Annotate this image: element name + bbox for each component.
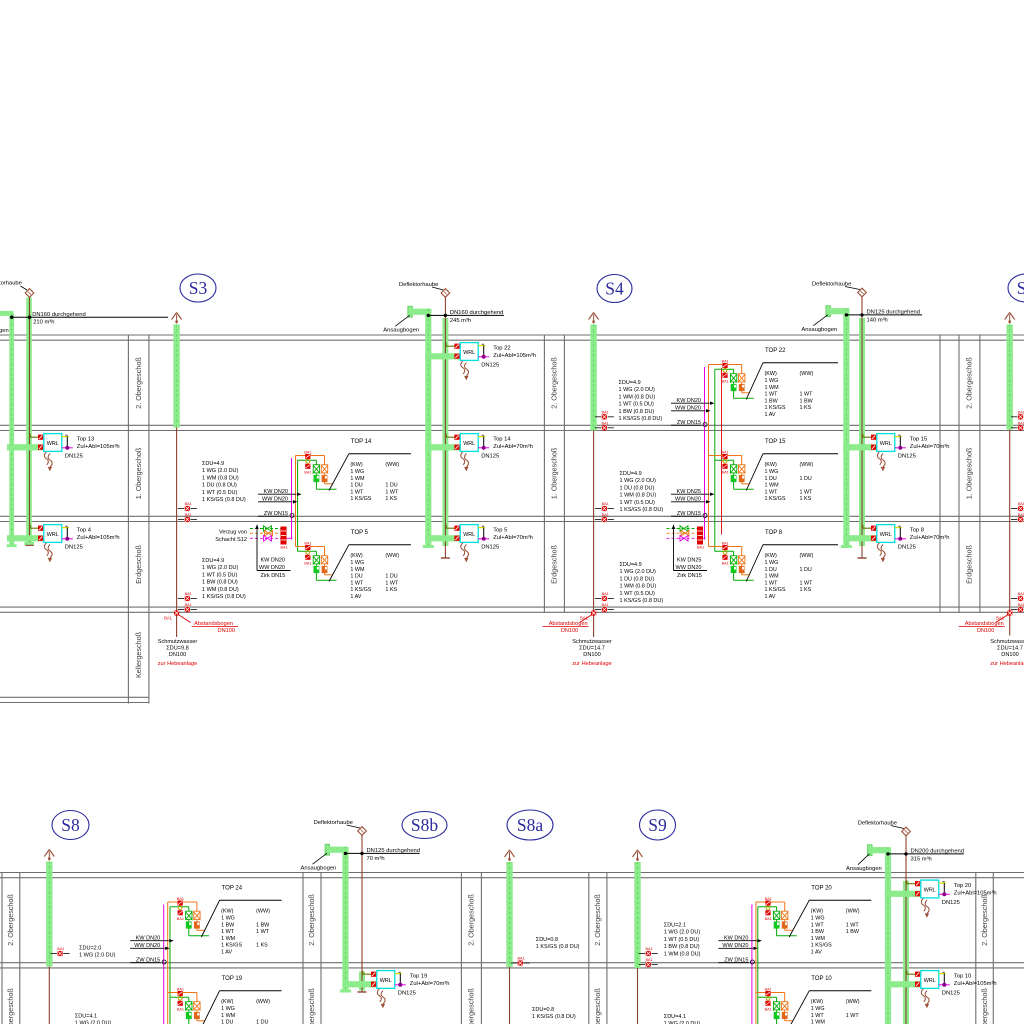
- pipe to valves TOP 5: [296, 546, 325, 548]
- pipe under valves TOP 19: [196, 1019, 198, 1021]
- svg-text:BA1: BA1: [765, 988, 772, 992]
- svg-text:Zul+Abl=70m³h: Zul+Abl=70m³h: [910, 444, 950, 450]
- svg-text:1 WT (0.5 DU): 1 WT (0.5 DU): [619, 402, 655, 408]
- transfer pipes from shaft: [667, 528, 698, 530]
- svg-text:DN100: DN100: [561, 628, 578, 634]
- svg-text:1. Obergeschoß: 1. Obergeschoß: [980, 988, 989, 1024]
- valve orange TOP 24: [194, 910, 201, 912]
- cleanout BA1: [178, 508, 184, 510]
- node S8a: [507, 810, 553, 840]
- damper Top 5 exhaust: [454, 526, 459, 531]
- WRL unit Top 5: [460, 525, 478, 543]
- svg-text:BA1: BA1: [722, 542, 729, 546]
- shaft wall lines: [588, 873, 590, 1024]
- svg-text:WRL: WRL: [880, 532, 892, 538]
- svg-text:Schmutzwasser: Schmutzwasser: [572, 639, 612, 645]
- svg-text:Zul+Abl=70m³h: Zul+Abl=70m³h: [493, 444, 533, 450]
- svg-text:ΣDU=4.9: ΣDU=4.9: [202, 461, 224, 467]
- svg-text:1 AV: 1 AV: [350, 594, 361, 600]
- svg-text:1. Obergeschoß: 1. Obergeschoß: [965, 447, 974, 499]
- svg-text:1 WT: 1 WT: [385, 580, 399, 586]
- svg-text:1. Obergeschoß: 1. Obergeschoß: [467, 988, 476, 1024]
- svg-text:2. Obergeschoß: 2. Obergeschoß: [6, 894, 15, 946]
- WRL unit Top 13: [44, 434, 62, 452]
- svg-text:DN125: DN125: [942, 900, 960, 906]
- svg-text:1 KS/GS (0.8 DU): 1 KS/GS (0.8 DU): [202, 594, 246, 600]
- svg-text:1 WG: 1 WG: [350, 469, 364, 475]
- svg-text:1 WT (0.5 DU): 1 WT (0.5 DU): [664, 937, 700, 943]
- svg-text:WW DN20: WW DN20: [676, 565, 702, 571]
- svg-text:1. Obergeschoß: 1. Obergeschoß: [134, 447, 143, 499]
- svg-text:1 KS/GS: 1 KS/GS: [765, 496, 786, 502]
- WRL unit Top 20: [921, 880, 939, 898]
- svg-text:DN125: DN125: [898, 453, 916, 459]
- svg-text:BA1: BA1: [281, 546, 288, 550]
- svg-text:1 KS/GS: 1 KS/GS: [221, 943, 242, 949]
- Ansaugbogen intake elbow: [408, 306, 413, 317]
- drain arrow Top 15: [877, 452, 881, 465]
- svg-text:1 WT: 1 WT: [800, 489, 814, 495]
- svg-text:Top 8: Top 8: [910, 527, 924, 533]
- svg-text:ΣDU=9.8: ΣDU=9.8: [166, 646, 189, 652]
- svg-text:1 BW: 1 BW: [800, 398, 814, 404]
- pipe under valves TOP 20: [784, 928, 786, 930]
- svg-text:1 WM: 1 WM: [221, 1013, 236, 1019]
- svg-text:BA1: BA1: [304, 451, 311, 455]
- exhaust riser duct: [359, 972, 365, 991]
- damper Top 19 exhaust: [371, 972, 376, 977]
- damper Top 19 supply: [371, 982, 376, 987]
- svg-text:TOP 5: TOP 5: [351, 530, 369, 536]
- pipe to valves TOP 14: [296, 455, 325, 457]
- svg-text:1 WG (2.0 DU): 1 WG (2.0 DU): [202, 468, 239, 474]
- svg-text:TOP 15: TOP 15: [765, 439, 786, 445]
- WRL unit Top 15: [877, 434, 895, 452]
- svg-text:2. Obergeschoß: 2. Obergeschoß: [134, 357, 143, 409]
- node S8b: [402, 812, 447, 839]
- svg-text:(KW): (KW): [765, 553, 777, 559]
- node S8: [52, 811, 89, 840]
- svg-text:ΣDU=4.1: ΣDU=4.1: [75, 1014, 97, 1020]
- floor line 2: [0, 515, 1024, 517]
- svg-text:Ansaugbogen: Ansaugbogen: [846, 866, 882, 872]
- svg-text:1 WG: 1 WG: [811, 1006, 825, 1012]
- leader TOP 19: [201, 991, 219, 1024]
- valve green TOP 20: [773, 910, 780, 912]
- svg-text:BA1: BA1: [177, 988, 184, 992]
- svg-text:(KW): (KW): [811, 999, 823, 1005]
- cleanout BA1: [639, 953, 645, 955]
- leader TOP 8: [746, 545, 763, 582]
- pipe to valves TOP 15: [709, 455, 742, 457]
- svg-text:1 KS/GS (0.8 DU): 1 KS/GS (0.8 DU): [536, 944, 580, 950]
- riser pipes KW WW ZW: [704, 367, 706, 540]
- connection stub Top 19: [395, 973, 402, 975]
- leader TOP 22: [746, 363, 763, 400]
- wire supply duct to Top 15: [843, 444, 877, 450]
- svg-text:1 WT: 1 WT: [846, 922, 860, 928]
- svg-text:BA1: BA1: [722, 380, 729, 384]
- svg-text:1 KS/GS (0.8 DU): 1 KS/GS (0.8 DU): [620, 507, 664, 513]
- riser vent duct: [634, 862, 640, 968]
- svg-text:1 BW: 1 BW: [811, 929, 825, 935]
- svg-text:torhaube: torhaube: [0, 281, 22, 287]
- svg-text:1 WM (0.8 DU): 1 WM (0.8 DU): [619, 394, 656, 400]
- svg-text:(KW): (KW): [350, 462, 362, 468]
- svg-text:1 DU (0.8 DU): 1 DU (0.8 DU): [620, 485, 655, 491]
- wire supply duct to Top 5: [425, 535, 460, 541]
- svg-text:1 WT: 1 WT: [811, 1013, 825, 1019]
- riser pipes KW WW ZW: [291, 458, 293, 540]
- svg-text:BA1: BA1: [185, 502, 192, 506]
- cleanout BA1: [595, 508, 601, 510]
- connection stub Top 15: [895, 436, 902, 438]
- svg-text:S8b: S8b: [411, 815, 438, 835]
- connection stub Top 4: [62, 527, 69, 529]
- wire supply duct to Top 19: [342, 981, 376, 987]
- svg-text:1 WM: 1 WM: [221, 936, 236, 942]
- svg-text:1. Obergeschoß: 1. Obergeschoß: [6, 988, 15, 1024]
- svg-text:1 DU (0.8 DU): 1 DU (0.8 DU): [202, 483, 237, 489]
- riser arrow: [589, 313, 594, 320]
- svg-text:Zul+Abl=70m³h: Zul+Abl=70m³h: [410, 981, 450, 987]
- svg-text:Top 20: Top 20: [954, 883, 971, 889]
- svg-text:(KW): (KW): [765, 462, 777, 468]
- shaft wall lines: [958, 335, 960, 612]
- shaft wall lines: [127, 335, 129, 704]
- svg-text:Schmutzwasser: Schmutzwasser: [990, 639, 1024, 645]
- svg-text:(WW): (WW): [846, 999, 860, 1005]
- svg-text:1 DU: 1 DU: [350, 483, 362, 489]
- floor line bottom 2: [0, 962, 1024, 964]
- svg-text:1 KS: 1 KS: [800, 405, 812, 411]
- drain arrow Top 10: [921, 989, 925, 1002]
- pipe under valves TOP 15: [741, 482, 743, 484]
- damper Top 10 exhaust: [915, 972, 920, 977]
- damper Top 20 exhaust: [915, 881, 920, 886]
- svg-text:1 BW: 1 BW: [221, 922, 235, 928]
- svg-text:ΣDU=4.1: ΣDU=4.1: [664, 1014, 686, 1020]
- floor line basement: [0, 696, 149, 698]
- cleanout BA1: [595, 598, 601, 600]
- svg-text:BA1: BA1: [602, 513, 609, 517]
- leader TOP 20: [789, 900, 809, 937]
- riser waste pipe: [593, 431, 595, 638]
- svg-text:WRL: WRL: [47, 532, 59, 538]
- cleanout BA1: [1011, 598, 1017, 600]
- pipe to valves TOP 24: [168, 901, 197, 903]
- svg-text:1 KS: 1 KS: [385, 496, 397, 502]
- leader TOP 5: [329, 545, 349, 582]
- svg-text:Ansaugbogen: Ansaugbogen: [301, 866, 337, 872]
- svg-text:(KW): (KW): [765, 371, 777, 377]
- riser waste pipe: [176, 428, 178, 638]
- wire exhaust duct Top 5: [445, 525, 447, 528]
- svg-text:DN160 durchgehend: DN160 durchgehend: [32, 312, 85, 318]
- svg-text:DN160 durchgehend: DN160 durchgehend: [450, 310, 504, 316]
- svg-text:KW DN20: KW DN20: [261, 558, 285, 564]
- riser vent duct: [506, 862, 512, 967]
- svg-text:BA1: BA1: [602, 502, 609, 506]
- svg-text:zur Hebeanlage: zur Hebeanlage: [990, 661, 1024, 667]
- Ansaugbogen intake elbow: [325, 844, 330, 855]
- svg-text:BA1: BA1: [177, 897, 184, 901]
- pipe labels EG: [673, 527, 675, 571]
- connection stub Top 5: [478, 527, 485, 529]
- svg-text:Zul+Abl=70m³h: Zul+Abl=70m³h: [493, 535, 533, 541]
- drain arrow Top 5: [461, 543, 465, 556]
- svg-text:(KW): (KW): [350, 553, 362, 559]
- svg-text:1 WT: 1 WT: [765, 489, 779, 495]
- svg-text:Top 10: Top 10: [954, 973, 971, 979]
- svg-text:1 WM: 1 WM: [350, 567, 365, 573]
- svg-text:1 WT: 1 WT: [846, 1013, 860, 1019]
- svg-text:BA1: BA1: [1018, 603, 1024, 607]
- pipe under valves TOP 14: [324, 482, 326, 484]
- svg-text:2. Obergeschoß: 2. Obergeschoß: [307, 894, 316, 946]
- svg-text:WRL: WRL: [463, 532, 475, 538]
- svg-text:gen: gen: [0, 328, 9, 334]
- damper Top 4 exhaust: [38, 526, 43, 531]
- riser arrow: [1005, 313, 1010, 320]
- svg-text:1 WT: 1 WT: [811, 922, 825, 928]
- valve green TOP 22: [730, 373, 737, 375]
- cleanout BA1: [595, 609, 601, 611]
- shut-off block: [697, 527, 703, 545]
- svg-text:DN125: DN125: [398, 990, 416, 996]
- svg-text:DN125: DN125: [481, 362, 499, 368]
- svg-text:(WW): (WW): [800, 462, 814, 468]
- svg-text:1 WM: 1 WM: [765, 385, 780, 391]
- svg-text:1 BW: 1 BW: [846, 929, 860, 935]
- svg-text:1 WG (2.0 DU): 1 WG (2.0 DU): [79, 953, 116, 959]
- svg-text:1 KS/GS: 1 KS/GS: [765, 587, 786, 593]
- connection stub Top 22: [478, 345, 485, 347]
- svg-text:DN125 durchgehend: DN125 durchgehend: [367, 848, 421, 854]
- svg-text:BA1: BA1: [722, 360, 729, 364]
- wire supply duct to Top 20: [885, 891, 921, 897]
- wire supply duct to Top 14: [425, 444, 460, 450]
- drain arrow Top 4: [44, 543, 48, 556]
- pipe under valves TOP 8: [741, 573, 743, 575]
- pipe labels EG: [256, 527, 258, 571]
- svg-text:TOP 19: TOP 19: [222, 976, 243, 982]
- supply riser duct: [425, 309, 431, 546]
- riser waste pipe: [48, 967, 50, 1024]
- svg-text:1 AV: 1 AV: [221, 950, 232, 956]
- damper Top 4 supply: [38, 536, 43, 541]
- svg-text:S9: S9: [648, 815, 667, 835]
- svg-text:WRL: WRL: [924, 978, 936, 984]
- svg-text:Top 15: Top 15: [910, 436, 927, 442]
- pipe to valves TOP 8: [709, 546, 742, 548]
- svg-text:BA1: BA1: [185, 603, 192, 607]
- svg-text:ΣDU=2.1: ΣDU=2.1: [664, 923, 686, 929]
- duct header line: [428, 314, 504, 316]
- svg-text:1 BW: 1 BW: [256, 922, 270, 928]
- svg-text:ΣDU=14.7: ΣDU=14.7: [997, 646, 1023, 652]
- svg-text:BA1: BA1: [602, 421, 609, 425]
- svg-text:1 WM (0.8 DU): 1 WM (0.8 DU): [202, 475, 239, 481]
- svg-text:1 KS/GS: 1 KS/GS: [811, 943, 832, 949]
- svg-text:zur Hebeanlage: zur Hebeanlage: [158, 661, 198, 667]
- svg-text:1 KS: 1 KS: [800, 587, 812, 593]
- svg-text:TOP 10: TOP 10: [811, 976, 832, 982]
- svg-text:(WW): (WW): [800, 371, 814, 377]
- svg-text:1 BW (0.8 DU): 1 BW (0.8 DU): [619, 409, 655, 415]
- svg-text:BA1: BA1: [602, 592, 609, 596]
- wire exhaust duct Top 19: [362, 971, 364, 974]
- svg-text:Top 22: Top 22: [493, 345, 510, 351]
- exhaust riser duct: [903, 881, 909, 1024]
- wire exhaust duct Top 15: [862, 434, 864, 437]
- svg-text:BA1: BA1: [304, 562, 311, 566]
- supply riser duct: [843, 308, 849, 546]
- valve green TOP 10: [773, 1001, 780, 1003]
- leader TOP 15: [746, 454, 763, 491]
- svg-text:140 m³h: 140 m³h: [867, 318, 888, 324]
- svg-text:1 WM: 1 WM: [811, 1020, 826, 1024]
- svg-text:1 DU (0.8 DU): 1 DU (0.8 DU): [620, 576, 655, 582]
- pipe under valves TOP 24: [196, 928, 198, 930]
- svg-text:1 WM (0.8 DU): 1 WM (0.8 DU): [664, 951, 701, 957]
- svg-text:KW DN25: KW DN25: [677, 558, 701, 564]
- svg-text:2. Obergeschoß: 2. Obergeschoß: [550, 357, 559, 409]
- svg-text:WRL: WRL: [380, 978, 392, 984]
- svg-text:1 KS/GS (0.8 DU): 1 KS/GS (0.8 DU): [532, 1014, 576, 1020]
- wire exhaust duct Top 22: [445, 343, 447, 346]
- svg-text:1 WT: 1 WT: [765, 392, 779, 398]
- svg-text:BA1: BA1: [518, 957, 525, 961]
- valve orange TOP 20: [781, 910, 788, 912]
- svg-text:(KW): (KW): [221, 909, 233, 915]
- svg-text:Top 4: Top 4: [77, 527, 92, 533]
- svg-text:1 WT (0.5 DU): 1 WT (0.5 DU): [202, 490, 238, 496]
- svg-text:Zul+Abl=105m³h: Zul+Abl=105m³h: [77, 444, 120, 450]
- svg-text:1. Obergeschoß: 1. Obergeschoß: [307, 988, 316, 1024]
- riser pipes KW WW ZW: [751, 905, 753, 1024]
- svg-text:1. Obergeschoß: 1. Obergeschoß: [550, 447, 559, 499]
- svg-text:WRL: WRL: [924, 887, 936, 893]
- svg-text:1 DU: 1 DU: [221, 1020, 233, 1024]
- damper Top 10 supply: [915, 982, 920, 987]
- svg-text:BA1: BA1: [602, 603, 609, 607]
- node S3: [180, 274, 216, 302]
- svg-text:BA1: BA1: [304, 542, 311, 546]
- riser waste pipe: [509, 967, 511, 1024]
- cleanout BA1: [595, 416, 601, 418]
- svg-text:Top 5: Top 5: [493, 527, 507, 533]
- svg-text:1 WM: 1 WM: [765, 483, 780, 489]
- drain arrow Top 20: [921, 899, 925, 912]
- damper Top 13 supply: [38, 445, 43, 450]
- svg-text:WW DN20: WW DN20: [259, 565, 285, 571]
- svg-text:DN125: DN125: [898, 544, 916, 550]
- svg-text:TOP 20: TOP 20: [811, 885, 832, 891]
- svg-text:1 WT: 1 WT: [765, 580, 779, 586]
- svg-text:BA1: BA1: [646, 947, 653, 951]
- svg-text:Verzug von: Verzug von: [219, 530, 247, 536]
- Deflektorhaube hood: [358, 827, 367, 836]
- svg-text:1 AV: 1 AV: [811, 950, 822, 956]
- svg-text:1 DU: 1 DU: [385, 574, 397, 580]
- svg-text:DN125: DN125: [942, 990, 960, 996]
- WRL unit Top 22: [460, 343, 478, 361]
- svg-text:1 BW (0.8 DU): 1 BW (0.8 DU): [664, 944, 700, 950]
- svg-text:1 WG: 1 WG: [765, 560, 779, 566]
- svg-text:1 AV: 1 AV: [765, 594, 776, 600]
- cleanout BA1: [1011, 508, 1017, 510]
- riser waste pipe: [637, 968, 639, 1024]
- svg-text:1 WG: 1 WG: [765, 378, 779, 384]
- svg-text:1 WT (0.5 DU): 1 WT (0.5 DU): [620, 591, 656, 597]
- svg-text:(KW): (KW): [221, 999, 233, 1005]
- svg-text:WRL: WRL: [463, 441, 475, 447]
- connection stub Top 14: [478, 436, 485, 438]
- svg-text:1 WM: 1 WM: [765, 574, 780, 580]
- svg-text:1 DU: 1 DU: [256, 1020, 268, 1024]
- damper Top 22 supply: [454, 354, 459, 359]
- damper Top 20 supply: [915, 891, 920, 896]
- wire exhaust duct Top 13: [29, 434, 31, 437]
- riser vent duct: [173, 325, 179, 428]
- svg-text:TOP 8: TOP 8: [765, 530, 783, 536]
- svg-text:1 DU: 1 DU: [800, 476, 812, 482]
- valve orange TOP 8: [738, 555, 745, 557]
- svg-text:2. Obergeschoß: 2. Obergeschoß: [965, 357, 974, 409]
- svg-text:1 DU: 1 DU: [765, 567, 777, 573]
- cleanout BA1: [511, 962, 517, 964]
- svg-text:1 WT (0.5 DU): 1 WT (0.5 DU): [620, 500, 656, 506]
- svg-text:ΣDU=0.8: ΣDU=0.8: [532, 1007, 554, 1013]
- svg-text:1 WG: 1 WG: [350, 560, 364, 566]
- wire supply duct to Top 10: [885, 981, 921, 987]
- svg-text:70 m³h: 70 m³h: [367, 856, 385, 862]
- pipe under valves TOP 10: [784, 1019, 786, 1021]
- svg-text:ΣDU=4.9: ΣDU=4.9: [202, 558, 224, 564]
- svg-text:BA1: BA1: [722, 451, 729, 455]
- svg-text:1 WT: 1 WT: [385, 489, 399, 495]
- connection stub Top 20: [939, 882, 946, 884]
- svg-text:1 WG (2.0 DU): 1 WG (2.0 DU): [620, 569, 657, 575]
- duct header line: [846, 314, 922, 316]
- valve orange TOP 10: [781, 1001, 788, 1003]
- svg-text:zur Hebeanlage: zur Hebeanlage: [572, 661, 612, 667]
- svg-text:1 WM: 1 WM: [350, 476, 365, 482]
- svg-text:1 WM (0.8 DU): 1 WM (0.8 DU): [202, 587, 239, 593]
- svg-text:BA1: BA1: [765, 897, 772, 901]
- damper Top 13 exhaust: [38, 435, 43, 440]
- pipe to valves TOP 22: [709, 364, 742, 366]
- svg-text:Zirk DN15: Zirk DN15: [677, 573, 702, 579]
- svg-text:Top 13: Top 13: [77, 436, 94, 442]
- shaft wall lines: [543, 335, 545, 612]
- svg-text:WRL: WRL: [463, 350, 475, 356]
- cleanout BA1: [1011, 427, 1017, 429]
- svg-text:1 KS/GS (0.8 DU): 1 KS/GS (0.8 DU): [619, 416, 663, 422]
- damper Top 15 exhaust: [871, 435, 876, 440]
- svg-text:1 WT: 1 WT: [350, 580, 364, 586]
- svg-text:(WW): (WW): [256, 999, 270, 1005]
- svg-text:1 WT: 1 WT: [256, 929, 270, 935]
- svg-text:1 KS/GS (0.8 DU): 1 KS/GS (0.8 DU): [620, 598, 664, 604]
- valve green TOP 14: [313, 464, 320, 466]
- floor line 0: [0, 334, 1024, 336]
- cleanout BA1: [1011, 609, 1017, 611]
- shaft wall lines: [302, 873, 304, 1024]
- riser arrow: [633, 850, 638, 857]
- svg-text:1 BW: 1 BW: [765, 398, 779, 404]
